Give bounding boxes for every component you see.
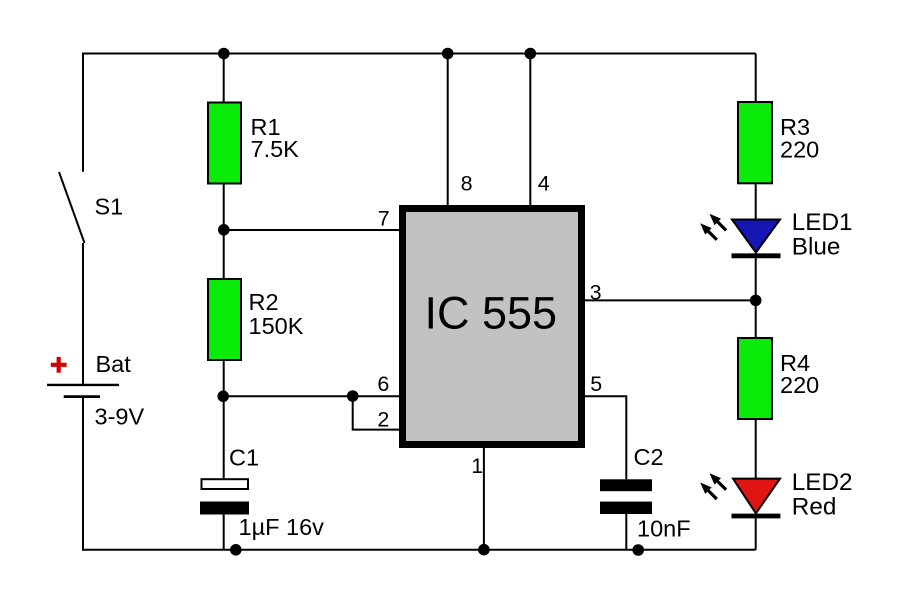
svg-text:1µF 16v: 1µF 16v: [239, 514, 325, 540]
svg-text:3-9V: 3-9V: [95, 403, 145, 429]
svg-text:Blue: Blue: [792, 234, 841, 261]
svg-text:1: 1: [471, 454, 483, 478]
svg-text:6: 6: [377, 372, 389, 396]
svg-text:220: 220: [780, 372, 819, 398]
svg-text:7.5K: 7.5K: [251, 136, 300, 162]
svg-text:7: 7: [378, 206, 390, 230]
svg-text:LED2: LED2: [792, 469, 853, 496]
svg-text:8: 8: [461, 172, 473, 196]
svg-text:S1: S1: [95, 194, 124, 220]
svg-text:LED1: LED1: [792, 209, 853, 236]
svg-text:220: 220: [780, 137, 819, 163]
svg-text:Red: Red: [792, 493, 837, 520]
svg-text:4: 4: [538, 172, 550, 196]
svg-text:C1: C1: [229, 444, 259, 470]
svg-text:150K: 150K: [249, 313, 304, 339]
svg-text:IC 555: IC 555: [425, 288, 558, 339]
svg-text:2: 2: [377, 408, 389, 432]
svg-text:5: 5: [590, 372, 602, 396]
svg-text:Bat: Bat: [96, 351, 132, 377]
svg-text:10nF: 10nF: [637, 516, 691, 542]
svg-text:C2: C2: [634, 444, 664, 470]
svg-text:3: 3: [590, 281, 602, 305]
svg-text:R2: R2: [249, 289, 279, 315]
